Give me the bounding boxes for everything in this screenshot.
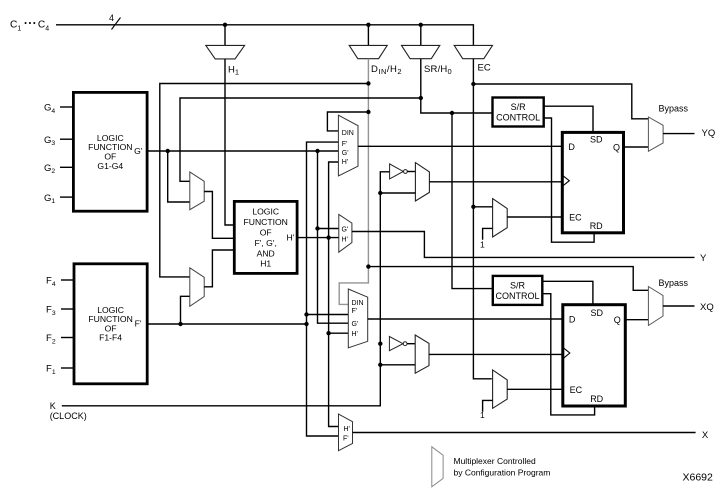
wire F' feed to lower DIN mux [307,314,349,316]
svg-text:OF: OF [260,227,272,237]
flip-flop FF1 [562,132,623,232]
wire K clock net [62,172,390,406]
mux F-side selector (config mux) [190,268,204,307]
wire Q1 to bypass mux [624,146,649,148]
wire H1 net down to H logic box [225,59,234,225]
svg-text:G': G' [352,321,359,328]
svg-text:F': F' [343,435,349,442]
node junction SR net to S/R control 2 [450,111,454,115]
wire clock 1 to FF1 [429,181,562,183]
mux H'F' (config mux) [339,414,353,451]
wire SD2 from S/R control 2 [542,281,593,304]
svg-text:H': H' [342,237,348,244]
wire Y output net [352,232,695,258]
wire Q2 to bypass mux [625,319,648,321]
svg-text:Multiplexer Controlled: Multiplexer Controlled [454,456,536,466]
svg-text:Bypass: Bypass [659,278,689,288]
logic box F1-F4 [74,264,147,384]
svg-text:by Configuration Program: by Configuration Program [454,467,551,477]
inverter clock 1 [390,164,404,179]
svg-text:SD: SD [590,135,603,145]
svg-text:RD: RD [590,221,603,231]
wire G' vertical to lower DIN mux [318,151,349,323]
wire F-side selector output to H box [204,250,234,287]
wire F' branch up to F-side selector mux [181,296,190,324]
svg-text:Q: Q [614,315,621,325]
svg-text:H': H' [352,331,358,338]
mux upper DIN F' G' H' (config mux) [338,115,358,176]
svg-text:FUNCTION: FUNCTION [243,217,287,227]
wire constant 1 input mux2 [483,400,493,411]
svg-text:DIN: DIN [342,130,354,137]
wire EC mux2 output to FF2 [507,388,563,390]
wire EC mux1 output to FF1 [507,216,562,218]
mux SR/H0 (config mux) [402,45,440,58]
svg-text:4: 4 [109,13,114,23]
wire H' vertical net [329,162,339,427]
svg-text:F': F' [135,319,142,329]
node junction F' branch to selector [178,322,182,326]
pin F3 [61,308,74,310]
svg-text:D: D [568,142,575,152]
svg-text:CONTROL: CONTROL [495,291,539,301]
wire H2 branch to F-side selector mux [160,84,369,277]
wire clock 2 to FF2 [429,353,563,355]
node junction DIN net / DIN feed [366,110,370,114]
svg-text:F', G',: F', G', [255,238,277,248]
flip-flop FF2 [563,305,626,406]
wire clock direct input 2 [380,364,415,366]
node junction EC / EC-mux1 feed [471,205,475,209]
label logic function of G1-G4 [88,133,132,171]
svg-text:H': H' [286,232,294,242]
wire SR/H0 net to S/R control 1 [421,59,493,113]
wire X output net [353,432,696,434]
mux bypass YQ (config mux) [648,117,663,151]
node junction H' to lower DIN mux [326,331,330,335]
mux bypass XQ (config mux) [648,287,663,326]
wire stub to H1 mux [224,25,226,46]
svg-text:X6692: X6692 [683,471,714,483]
wire YQ bypass feed from EC line [473,84,648,119]
wire EC net vertical [473,59,491,379]
node junction H' output [326,235,330,239]
mux lower DIN F' G' H' (config mux) [348,289,367,348]
svg-text:G': G' [134,146,143,156]
svg-text:S/R: S/R [510,280,526,290]
svg-text:F': F' [352,308,358,315]
FF1 clock triangle [562,175,569,186]
wire F' vertical net [307,142,339,436]
svg-text:D: D [569,315,576,325]
svg-text:(CLOCK): (CLOCK) [50,411,87,421]
wire C bus top line [56,25,473,46]
node junction on C bus at SR/H0 [419,23,423,27]
svg-text:1: 1 [480,410,485,420]
wire DIN/H2 gray net [339,59,368,305]
pin F1 [61,367,74,369]
legend mux symbol [432,447,443,487]
wire DIN feed to upper DIN mux [327,112,368,131]
node junction SR net / H0 branch [419,96,423,100]
S/R control box 2 [493,276,543,305]
svg-text:SD: SD [591,308,604,318]
S/R control box 1 [493,98,544,127]
pin G4 [60,106,73,108]
FF2 clock triangle [563,347,570,359]
svg-text:G1-G4: G1-G4 [97,161,123,171]
label logic function of F' G' and H1 [243,206,287,268]
logic box G1-G4 [73,92,147,211]
node junction G' branch to selector [166,149,170,153]
svg-text:H': H' [342,159,348,166]
svg-text:Bypass: Bypass [659,104,689,114]
svg-text:EC: EC [569,213,582,223]
bus width-4 slash [112,18,121,30]
label logic function of F1-F4 [88,305,132,343]
wire stub to SR/H0 mux [420,25,422,46]
node junction on C bus at H1 [223,23,227,27]
svg-text:S/R: S/R [511,102,527,112]
wire YQ output [663,133,694,135]
node junction on C bus at DIN/H2 [366,23,370,27]
svg-text:G': G' [342,227,349,234]
svg-text:Q: Q [613,143,620,153]
node junction EC / bypass1 feed [471,82,475,86]
wire H' feed to lower DIN mux [329,332,349,334]
node junction clock to mux2 direct [378,363,382,367]
pin F4 [61,279,74,281]
svg-text:F': F' [342,141,348,148]
wire RD2 from S/R control 2 [542,294,594,415]
mux EC (config mux) [454,45,492,58]
wire D2 line from lower DIN mux to FF2 D [368,318,563,320]
svg-text:K: K [50,401,56,411]
node junction clock to inverter2 [378,342,382,346]
svg-text:XQ: XQ [700,302,714,313]
svg-text:X: X [702,430,709,441]
svg-text:EC: EC [570,385,583,395]
wire H0 branch to G-side selector mux [180,98,421,181]
node junction clock to mux1 direct [378,191,382,195]
mux EC enable 2 (config mux) [493,370,508,408]
node junction G' to G'H' mux [315,226,319,230]
pin G2 [60,166,73,168]
svg-text:1: 1 [480,240,485,250]
wire RD1 from S/R control 1 [544,118,594,242]
wire XQ bypass feed [368,267,648,291]
mux clock polarity 2 (config mux) [415,335,429,373]
svg-text:LOGIC: LOGIC [252,206,279,216]
wire G' output net [147,150,338,152]
mux G'H' (config mux) [339,214,352,252]
wire G-side selector output to H box [204,192,234,239]
wire F' output net [147,323,306,325]
node junction F' net on vertical [304,322,308,326]
logic box F' G' H1 [234,201,297,273]
wire EC feed to EC mux 1 [473,206,492,208]
wire XQ output [663,305,695,307]
svg-text:H': H' [344,426,350,433]
wire clock direct input 1 [380,192,415,194]
svg-text:G': G' [342,150,349,157]
node junction F' to lower DIN mux [304,312,308,316]
svg-text:AND: AND [257,248,275,258]
wire constant 1 input mux1 [483,228,493,239]
svg-text:Y: Y [700,253,707,264]
wire G' feed to G'H' mux [318,228,339,230]
node junction G' vertical [315,149,319,153]
svg-text:DIN: DIN [352,300,364,307]
mux DIN/H2 (config mux) [349,45,387,58]
pin G1 [60,196,73,198]
pin F2 [61,337,74,339]
inverter clock 2 [389,337,403,351]
svg-text:CONTROL: CONTROL [496,113,540,123]
wire stub to DIN/H2 mux [367,25,369,46]
node junction DIN net / H2 branch [366,81,370,85]
wire SD1 from S/R control 1 [544,106,593,132]
wire G' branch down to G-side selector mux [168,151,190,202]
wire D1 line from upper DIN mux to FF1 D [358,145,562,147]
svg-text:YQ: YQ [702,128,716,139]
wire SR feed to S/R control 2 [452,113,493,289]
mux G-side selector (config mux) [190,172,204,210]
node junction DIN net / XQ bypass feed [366,264,370,268]
svg-text:F1-F4: F1-F4 [99,333,122,343]
pin G3 [60,138,73,140]
wire H' output net to G'H' mux [297,237,339,239]
svg-text:H1: H1 [260,259,271,269]
mux clock polarity 1 (config mux) [415,163,429,201]
svg-text:EC: EC [478,63,491,74]
svg-text:RD: RD [590,394,603,404]
mux H1 (config mux) [206,45,245,59]
mux EC enable 1 (config mux) [493,199,508,237]
